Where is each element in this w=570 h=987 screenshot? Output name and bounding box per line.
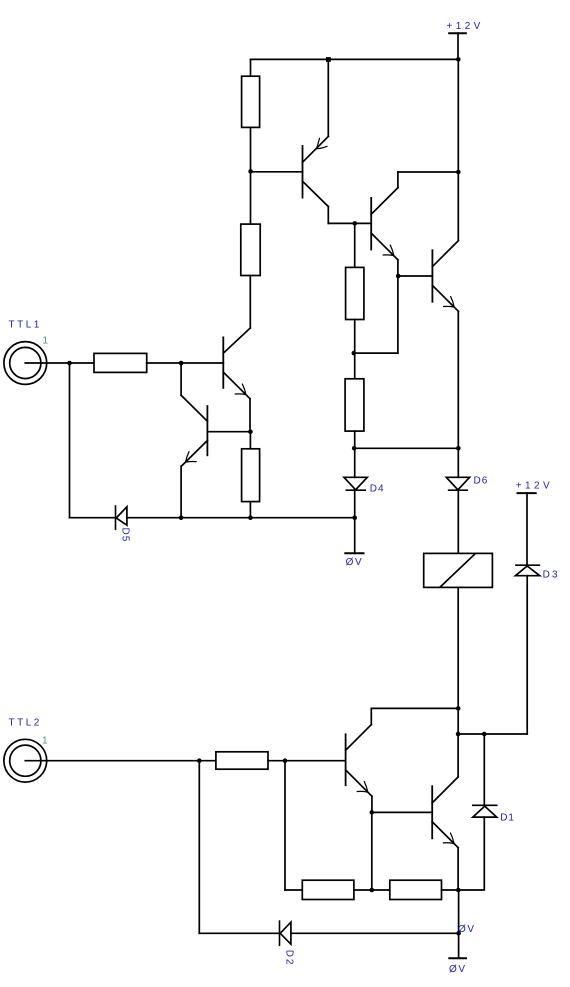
svg-text:ØV: ØV [458,924,476,935]
svg-text:+12V: +12V [516,481,553,492]
node D (Q4 base tap) [396,274,401,279]
wire Q3 emitter down [354,260,398,353]
node K (QL emitter on rail) [179,515,184,520]
svg-text:D5: D5 [120,528,131,543]
wire R2 to Q2 collector [249,276,251,328]
node U (Q6 emitter on bottom resistor rail) [456,888,461,893]
wire +12V line down to Q4 collector [457,59,459,240]
svg-text:D4: D4 [370,484,385,495]
wire QL collector to node I [180,363,182,395]
node L (R6 bottom on rail) [248,515,253,520]
node R (Q6 collector / D3 / D1 line) [456,732,461,737]
wire Q5 emitter to node Q [371,796,373,812]
resistor R5 (TTL1 series) [94,353,147,372]
ground 0V bottom [449,933,466,958]
node Q (Q5 emitter / Q6 base / R8) [370,810,375,815]
wire R9 to D1 column [442,889,484,891]
wire node O down to R8 [285,761,302,890]
resistor R2 [241,224,260,275]
resistor R6 [242,449,260,502]
relay K1 coil box [424,553,493,587]
svg-text:1: 1 [42,735,48,746]
svg-text:D2: D2 [284,950,295,966]
wire node A to R2 [250,171,252,224]
diode D5 (in-line on 0V rail) [116,506,355,529]
resistor R1 top-left [242,76,260,127]
svg-text:1: 1 [43,336,49,347]
wire node T up to node Q [371,812,373,890]
wire Q1 emitter to rail [327,59,329,136]
node M (rail / D4 / ground) [352,515,357,520]
svg-text:D1: D1 [500,813,515,824]
wire Q5 collector to node P [371,708,458,724]
wire QL emitter to bottom rail [180,466,182,517]
wire Q2 emitter to node J [249,399,251,432]
transistor Q3 (NPN) [355,188,398,260]
svg-text:ØV: ØV [449,964,467,975]
svg-text:TTL1: TTL1 [9,319,42,330]
node G (Q4 emitter / D6) [456,446,461,451]
wire Q3 collector to +12V line [398,172,458,188]
wire node N down left side [199,761,279,934]
node O (R8 branch) [283,758,288,763]
wire left column drop from rail [250,59,252,76]
diode D6 [446,448,469,553]
wire R5 to Q2 base [147,362,224,364]
wire Q6 emitter down [457,848,459,890]
wire node E to R4 [354,353,356,379]
wire TTL2 to R7 [25,760,216,762]
transistor Q4 (NPN) [398,241,458,312]
connector TTL2 [4,739,47,782]
node N (D2 branch) [197,758,202,763]
node H (TTL1 lead / D5 branch) [67,361,72,366]
wire R3 to node E [354,320,356,354]
svg-text:+12V: +12V [447,21,484,32]
diode D1 [473,734,497,890]
node V (0V junction) [456,931,461,936]
node T (R8/R9 junction to node Q) [370,888,375,893]
node junction top rail / +12V stem [456,57,461,62]
wire Q6 collector to node R [457,734,459,777]
wire R1 to node A [250,127,252,171]
svg-text:ØV: ØV [346,557,364,568]
power +12V top symbol [449,33,466,59]
wire TTL1 to R5 [25,362,94,364]
wire Q1 base [251,171,303,173]
resistor R9 (bottom right) [390,880,442,899]
transistor QL (NPN mirrored, lower left) [181,395,250,466]
transistor Q5 (NPN) [346,725,372,797]
diode D3 [458,565,540,734]
wire crossbar node F to node G [354,447,458,449]
wire R4 to node F [354,431,356,448]
resistor R8 (bottom left) [302,880,354,899]
node I (Q2 base / QL collector) [179,361,184,366]
svg-text:D6: D6 [474,476,489,487]
wire node H down left side [70,363,116,518]
wire Q1 collector down/right [328,207,354,224]
svg-text:TTL2: TTL2 [9,717,42,728]
node E (R3/R4/Q3 emitter) [352,351,357,356]
resistor R7 (TTL2 series) [216,752,268,769]
wire R7 to Q5 base [268,760,346,762]
wire node U down to 0V node [458,890,460,933]
resistor R3 (middle column upper) [346,267,364,319]
wire node B down to R3 [354,223,356,267]
ground 0V under D4 [345,518,363,554]
node C (+12V line / Q3 collector) [456,170,461,175]
wire node J to R6 [249,432,251,449]
node J (Q2 emitter / QL base / R6) [248,429,253,434]
wire Q4 emitter down to D6 node [457,311,459,448]
node S (D1 branch) [482,732,487,737]
node P (Q5 collector / relay line) [456,706,461,711]
diode D4 [344,448,367,517]
wire R8 to R9 [354,889,390,891]
connector TTL1 [4,342,47,385]
transistor Q2 (NPN) [223,328,250,399]
transistor Q6 (NPN) [372,777,458,848]
node B (Q1 collector / Q3 base / R3) [352,221,357,226]
svg-text:D3: D3 [543,569,560,580]
wire top rail [251,58,459,60]
node F (R4 / D4 / crossbar) [352,446,357,451]
power +12V right symbol [518,493,536,565]
node junction top rail / Q1 emitter (square) [326,57,331,62]
wire relay to Q5/Q6 collectors [457,587,459,734]
transistor Q1 (PNP) [303,136,329,206]
resistor R4 (middle column lower) [345,379,364,431]
node A (Q1 base / R1 / R2) [248,169,253,174]
diode D2 (in-line on 0V rail) [280,921,459,945]
wire R6 to rail [249,502,251,518]
